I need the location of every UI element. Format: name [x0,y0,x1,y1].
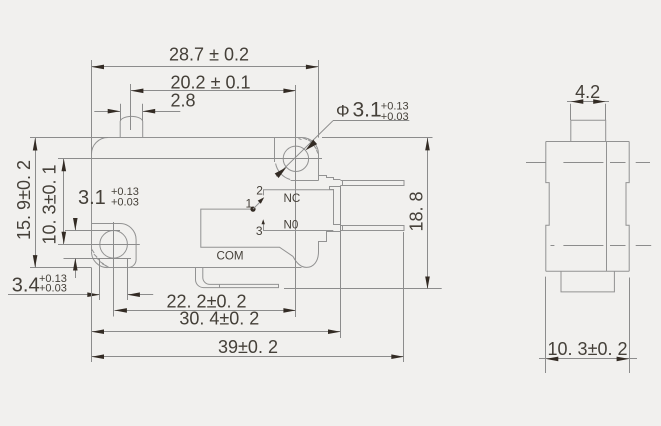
mounting boss top-right [275,138,319,181]
svg-text:+0.03: +0.03 [39,282,67,294]
svg-text:18. 8: 18. 8 [407,191,427,231]
dim 2.8 line [94,111,120,113]
dia 3.1 underline [333,120,409,122]
dim 10.3 line [63,159,65,245]
svg-text:N0: N0 [284,218,299,231]
dim 2.8 extension right [142,104,144,121]
svg-text:+0.03: +0.03 [381,111,409,123]
boss right edge lower segment [318,176,320,181]
svg-text:10. 3±0. 1: 10. 3±0. 1 [40,165,60,245]
dia 3.1 leader diagonal [276,121,333,177]
dim 30.4 extension right [340,186,342,338]
dim 3.1 arrows [75,218,77,231]
dim 39 extension right [403,232,405,362]
svg-text:2.8: 2.8 [170,91,195,111]
NO contact arrow [262,219,265,224]
side view bottom hole centerline [551,245,555,247]
mounting boss bottom-left [92,224,137,268]
dim 10.3 side line [539,358,637,360]
switch body outline (main view) [91,137,404,267]
mounting hole top-right (dia 3.1) [283,146,308,171]
NO fixed contact [264,223,334,231]
COM terminal tick [219,284,221,287]
corner hatching top-right [303,138,308,140]
svg-text:10. 3±0. 2: 10. 3±0. 2 [548,339,628,359]
dim 4.2 line [567,101,609,103]
svg-text:39±0. 2: 39±0. 2 [218,337,278,357]
terminal seal tick NO [342,226,344,231]
bottom hole right edge extension [127,258,129,300]
dim 15.9 extension bottom [30,267,92,269]
dim 39 line [92,356,404,358]
mounting hole bottom-left (3.4 x 3.1) [100,231,128,259]
svg-text:3: 3 [256,224,263,238]
top hole horizontal centerline [58,158,322,160]
dim 22.2 line [114,310,296,312]
dim 28.7 line [92,66,319,68]
svg-text:3.4: 3.4 [12,275,40,297]
svg-text:28.7 ± 0.2: 28.7 ± 0.2 [169,45,249,65]
dim 4.2 extension lines [570,104,572,120]
side view body [546,142,629,272]
plunger button (main view) [120,116,143,137]
pole pivot dot [250,207,255,212]
dim 10.3 side extension lines [545,277,547,373]
svg-text:3.1: 3.1 [78,187,106,209]
COM conductor path [201,209,293,256]
dim 20.2 line [131,90,296,92]
dim 18.8 extension top [322,137,433,139]
svg-text:3.1: 3.1 [353,98,382,121]
bottom hole top edge extension [65,230,120,232]
bottom hole left edge extension [99,258,101,300]
svg-text:15. 9±0. 2: 15. 9±0. 2 [14,160,34,240]
COM terminal tab [196,268,279,288]
side view bottom block (COM terminal) [561,271,614,292]
svg-text:1: 1 [245,197,252,211]
bottom hole horizontal centerline [58,244,140,246]
top hole vertical centerline [295,85,297,317]
side view plunger [571,120,606,141]
dim 15.9 extension top [30,137,108,139]
svg-text:20.2 ± 0.1: 20.2 ± 0.1 [171,72,251,92]
dim 28.7 extension right [318,60,320,138]
svg-text:+0.03: +0.03 [111,197,139,209]
svg-text:30. 4±0. 2: 30. 4±0. 2 [179,309,259,329]
terminal seal tick NC [342,181,344,186]
svg-text:2: 2 [256,183,263,197]
dim 18.8 extension bottom [284,288,442,290]
dim 30.4 line [92,331,341,333]
bottom hole bottom edge extension [64,258,132,260]
svg-text:NC: NC [284,192,301,205]
corner hatching bottom-left [92,249,95,253]
plunger centerline [130,84,132,130]
svg-text:Φ: Φ [336,101,350,120]
dim 2.8 extension left [120,104,122,121]
body bottom-left corner arc [91,252,107,268]
dim 39 extension left [91,268,93,362]
bottom hole vertical centerline [113,222,115,317]
dim 28.7 extension left [91,60,93,155]
side view top hole centerline [526,162,546,164]
svg-text:4.2: 4.2 [575,82,600,102]
moving contact arm [253,201,262,210]
dim 15.9 line [35,138,37,268]
dim 3.4 line [8,294,100,296]
svg-text:COM: COM [217,250,244,263]
dim 18.8 line [427,138,429,289]
side view internal edge [606,142,608,272]
NC fixed contact [264,190,334,196]
